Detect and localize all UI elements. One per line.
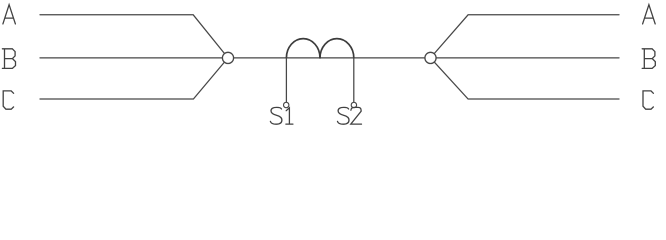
wire A right [431, 15, 620, 58]
node left star point [222, 52, 233, 63]
label C left phase [3, 91, 13, 109]
label B right phase [642, 49, 655, 69]
label A left phase [3, 5, 16, 24]
wire B right [431, 57, 620, 59]
wire B left [40, 57, 228, 59]
wire bus middle [234, 57, 425, 59]
label S1 terminal [270, 107, 293, 124]
wire C right [431, 58, 620, 99]
label C right phase [643, 91, 653, 109]
label B left phase [2, 49, 15, 69]
terminal S1 [284, 102, 289, 107]
wire C left [40, 58, 228, 99]
wire A left [40, 15, 228, 58]
node right star point [425, 52, 436, 63]
CT winding arc 1 [286, 39, 320, 58]
CT winding arc 2 [320, 39, 354, 58]
lead S2 [353, 58, 355, 105]
label S2 terminal [338, 107, 362, 124]
terminal S2 [351, 102, 356, 107]
label A right phase [643, 5, 656, 24]
lead S1 [285, 58, 287, 105]
